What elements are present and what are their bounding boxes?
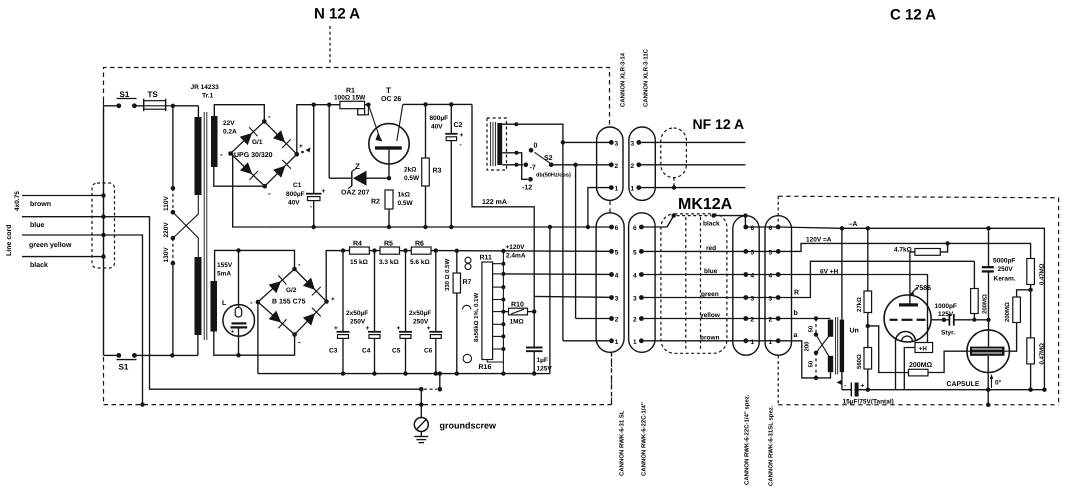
jack circle lower xyxy=(463,354,471,362)
svg-text:R16: R16 xyxy=(479,364,492,371)
svg-text:groundscrew: groundscrew xyxy=(440,421,498,431)
svg-text:5: 5 xyxy=(769,249,773,256)
wire -A rail xyxy=(778,221,1044,390)
svg-text:-: - xyxy=(268,189,271,198)
svg-text:-: - xyxy=(844,383,846,390)
svg-text:5mA: 5mA xyxy=(217,271,231,278)
svg-text:-: - xyxy=(298,260,301,269)
svg-text:50: 50 xyxy=(808,360,815,367)
svg-text:1: 1 xyxy=(769,339,773,346)
capacitor C2 800uF 40V xyxy=(430,104,464,227)
svg-text:green: green xyxy=(701,291,719,298)
svg-text:3: 3 xyxy=(751,296,755,303)
fuse TS xyxy=(144,90,173,111)
svg-text:200: 200 xyxy=(804,341,811,352)
label 2x50uF 250V second xyxy=(409,310,431,326)
node ladder tap 2 xyxy=(493,272,506,276)
transistor T OC26 xyxy=(368,86,409,178)
svg-text:R3: R3 xyxy=(433,168,442,175)
wire Un secondary bottom to ground wire xyxy=(837,372,843,390)
svg-text:250V: 250V xyxy=(413,319,429,326)
cable NF12A dashed capsule xyxy=(661,128,687,190)
svg-text:0.47MΩ: 0.47MΩ xyxy=(1039,263,1046,285)
resistor R1 100ohm 15W with tap xyxy=(334,88,368,115)
node ladder tap 5 xyxy=(493,310,506,314)
svg-text:4: 4 xyxy=(769,273,773,280)
wire NF line 3 xyxy=(639,141,746,143)
svg-text:R: R xyxy=(794,290,799,297)
bridge rectifier G/1 xyxy=(220,112,299,198)
svg-text:5.6 kΩ: 5.6 kΩ xyxy=(410,259,430,266)
wire capsule bottom to ground and chassis xyxy=(986,373,990,407)
wire 22V secondary top to bridge G/1 xyxy=(214,105,264,122)
resistor 4.7k plate load xyxy=(894,243,948,303)
capacitor 15uF tantal xyxy=(843,383,894,406)
svg-text:3: 3 xyxy=(631,140,635,147)
svg-text:TS: TS xyxy=(148,90,159,99)
svg-text:2: 2 xyxy=(751,317,755,324)
wire winding mid tap to -12 contact xyxy=(502,151,533,192)
node ladder tap 1 xyxy=(493,262,506,266)
switch S1 upper pole xyxy=(104,90,144,108)
svg-text:G/2: G/2 xyxy=(286,287,297,294)
svg-text:C3: C3 xyxy=(329,348,338,355)
svg-text:R11: R11 xyxy=(480,255,493,262)
svg-text:R5: R5 xyxy=(384,241,393,248)
node 5000pF top on rail xyxy=(986,226,990,230)
svg-text:4x0.75: 4x0.75 xyxy=(14,191,21,211)
svg-text:800µF: 800µF xyxy=(286,191,305,198)
node rail corner on ground xyxy=(1042,388,1046,392)
svg-text:250V: 250V xyxy=(350,319,366,326)
label CANNON XLR-3-11C xyxy=(643,48,650,107)
svg-text:CANNON XLR-3-11C: CANNON XLR-3-11C xyxy=(643,48,650,107)
node black terminal xyxy=(101,254,105,258)
svg-text:R1: R1 xyxy=(346,88,355,95)
svg-text:3: 3 xyxy=(769,296,773,303)
svg-text:CANNON RWK-6-31SL spez.: CANNON RWK-6-31SL spez. xyxy=(768,405,775,486)
svg-text:15µF/75V(Tantal): 15µF/75V(Tantal) xyxy=(843,399,894,406)
wire mains bus (left edge vertical) xyxy=(103,106,105,356)
switch S1 lower pole xyxy=(104,353,198,372)
svg-text:-: - xyxy=(298,338,301,347)
svg-text:-: - xyxy=(460,142,462,149)
resistor ladder R11-R16 8x56k xyxy=(473,251,503,374)
svg-text:+H: +H xyxy=(919,346,928,353)
connector CANNON RWK-6-31SL spez xyxy=(765,216,792,356)
resistor 200M grid leak xyxy=(868,326,967,376)
wire selector crossover X xyxy=(173,195,198,257)
svg-text:CANNON RWK-6-31 SL: CANNON RWK-6-31 SL xyxy=(619,410,626,476)
wire blue branch to ground link xyxy=(104,217,422,390)
transformer Tr.1 xyxy=(191,84,220,355)
svg-text:Tr.1: Tr.1 xyxy=(202,93,214,100)
node 0.47M bottom on ground xyxy=(1028,388,1032,392)
svg-text:2: 2 xyxy=(615,163,619,170)
svg-text:CAPSULE: CAPSULE xyxy=(947,381,980,388)
svg-text:+: + xyxy=(331,296,335,303)
svg-text:G/1: G/1 xyxy=(252,139,263,146)
wire G/1 plus to +rail xyxy=(297,105,340,155)
wire MK pins 5-1 pass-through xyxy=(746,227,778,341)
svg-text:C5: C5 xyxy=(392,348,401,355)
svg-text:S1: S1 xyxy=(120,90,130,99)
wire MK shield black xyxy=(641,213,747,227)
svg-text:-: - xyxy=(268,112,271,121)
svg-text:yellow: yellow xyxy=(700,312,721,319)
svg-text:blue: blue xyxy=(30,221,44,229)
svg-text:4.7kΩ: 4.7kΩ xyxy=(894,247,912,254)
svg-text:3.3 kΩ: 3.3 kΩ xyxy=(379,259,399,266)
wire 122mA feed xyxy=(472,104,534,296)
capacitor C3 xyxy=(329,251,350,374)
svg-text:250V: 250V xyxy=(998,266,1014,273)
svg-text:100Ω 15W: 100Ω 15W xyxy=(334,95,366,102)
svg-text:C1: C1 xyxy=(293,182,302,189)
svg-text:+: + xyxy=(397,325,401,332)
node green-yellow terminal xyxy=(101,233,105,237)
svg-text:green yellow: green yellow xyxy=(29,241,72,249)
wire lower 0V rail xyxy=(258,373,550,375)
wire mic ground bus xyxy=(842,389,1045,391)
svg-text:50: 50 xyxy=(808,325,815,332)
resistor R6 5.6k xyxy=(410,241,431,267)
svg-text:155V: 155V xyxy=(217,262,233,269)
title NF 12 A xyxy=(693,116,745,132)
svg-text:130V: 130V xyxy=(163,247,170,263)
wire line-cord green yellow xyxy=(22,235,104,249)
label 0 degrees with arrow xyxy=(990,374,1002,388)
wire pin b to Un primary top xyxy=(778,309,830,321)
svg-text:1: 1 xyxy=(615,339,619,346)
wire line-cord black xyxy=(22,257,104,269)
svg-text:800µF: 800µF xyxy=(430,115,449,122)
node base junction xyxy=(387,176,391,180)
zener diode Z OAZ 207 xyxy=(329,105,389,197)
connector CANNON RWK-6-22C spez xyxy=(733,216,759,356)
svg-text:200MΩ: 200MΩ xyxy=(1004,302,1011,322)
svg-text:0°: 0° xyxy=(995,380,1002,387)
svg-text:C2: C2 xyxy=(454,122,463,129)
node 27k top on rail xyxy=(866,226,870,230)
capacitor C4 xyxy=(362,251,381,374)
label +120V 2.4mA xyxy=(506,244,526,260)
wire green-yellow branch to chassis xyxy=(104,235,145,407)
wire 120V =A from pin 5 xyxy=(778,237,947,252)
wire G/1 minus to 0V rail xyxy=(231,154,265,228)
node ladder tap 7 xyxy=(493,334,506,338)
node zener feed junction xyxy=(327,103,331,107)
label 50 lower xyxy=(808,360,815,367)
connector CANNON RWK-6-22C xyxy=(629,213,656,352)
svg-text:B 155 C75: B 155 C75 xyxy=(272,299,306,306)
node selector bottom junction xyxy=(170,353,174,357)
svg-text:6V +H: 6V +H xyxy=(820,269,839,276)
svg-text:8x56kΩ 1%, 0.1W: 8x56kΩ 1%, 0.1W xyxy=(473,292,480,342)
svg-text:7586: 7586 xyxy=(916,285,932,292)
voltage selector xyxy=(171,106,176,356)
resistor R5 3.3k xyxy=(379,241,400,267)
N12A enclosure dashed box xyxy=(104,68,612,405)
svg-text:R2: R2 xyxy=(371,199,380,206)
svg-text:200MΩ: 200MΩ xyxy=(982,294,989,314)
wire 155V rail xyxy=(215,250,295,281)
svg-text:1: 1 xyxy=(631,186,635,193)
label CANNON RWK-6-22C-1/4 spez xyxy=(744,394,751,485)
svg-text:6: 6 xyxy=(633,225,637,232)
svg-text:1: 1 xyxy=(751,339,755,346)
node lamp bottom junction xyxy=(236,353,240,357)
svg-text:1µF: 1µF xyxy=(537,357,548,364)
N12A dashed edge below XLR oval xyxy=(611,353,613,405)
label 130V xyxy=(163,247,170,263)
wire winding top tap to XLR pin 3 xyxy=(502,122,611,341)
label 110V xyxy=(163,196,170,211)
wire ladder tap2 to MK pin 4 xyxy=(503,273,610,276)
node R7 top junction xyxy=(455,249,459,253)
svg-text:4: 4 xyxy=(633,273,637,280)
node ladder feed junction xyxy=(501,249,505,253)
svg-text:a: a xyxy=(794,332,798,339)
svg-text:+: + xyxy=(299,143,303,150)
svg-text:N 12 A: N 12 A xyxy=(314,6,360,23)
wire MK line blue xyxy=(641,268,745,275)
svg-text:S1: S1 xyxy=(119,363,129,372)
node blue terminal xyxy=(101,215,105,219)
svg-text:200MΩ: 200MΩ xyxy=(909,362,933,369)
label CANNON XLR-3-14 xyxy=(620,52,627,107)
svg-text:1: 1 xyxy=(633,339,637,346)
svg-text:330 Ω 0.5W: 330 Ω 0.5W xyxy=(444,259,451,291)
node B+ junction xyxy=(945,241,949,245)
wire pin a to Un primary bottom xyxy=(778,332,830,380)
node lower rail junctions xyxy=(341,371,537,375)
node C6 junction xyxy=(434,248,438,252)
node grid node junction xyxy=(942,318,946,322)
node ladder tap 4 xyxy=(493,298,506,302)
node C1 top junction xyxy=(312,103,316,107)
switch S2 xyxy=(529,143,571,179)
svg-text:0.47MΩ: 0.47MΩ xyxy=(1039,343,1046,365)
wire R pattern feed from pin 3 xyxy=(778,261,974,297)
svg-text:560Ω: 560Ω xyxy=(856,354,863,369)
connector CANNON RWK-6-31SL xyxy=(596,213,624,352)
svg-text:110V: 110V xyxy=(163,196,170,211)
svg-text:black: black xyxy=(30,261,48,269)
svg-text:Line cord: Line cord xyxy=(5,224,13,256)
svg-text:0.5W: 0.5W xyxy=(398,200,414,207)
svg-text:brown: brown xyxy=(30,200,51,208)
svg-text:2: 2 xyxy=(615,317,619,324)
wire chain node R5-R6 xyxy=(400,248,412,252)
wire MK line brown xyxy=(641,334,745,341)
svg-text:125V: 125V xyxy=(938,311,954,318)
svg-text:5000pF: 5000pF xyxy=(993,258,1015,265)
svg-text:S2: S2 xyxy=(544,155,553,162)
svg-text:JR 14233: JR 14233 xyxy=(191,84,220,91)
svg-text:5: 5 xyxy=(615,249,619,256)
wire rail interconnect vertical xyxy=(548,225,552,374)
heater terminal +H xyxy=(904,343,932,390)
svg-text:1kΩ: 1kΩ xyxy=(398,192,410,199)
svg-text:-7: -7 xyxy=(530,165,536,172)
title N 12 A xyxy=(314,6,360,23)
node 560 bottom on ground xyxy=(866,388,870,392)
svg-text:R4: R4 xyxy=(353,241,362,248)
node R3 top junction xyxy=(423,102,427,106)
svg-text:4: 4 xyxy=(751,273,755,280)
resistor R10 1M xyxy=(503,302,534,326)
jack horseshoe xyxy=(463,305,471,309)
svg-text:–A: –A xyxy=(849,221,858,228)
wire chain node R4-R5 xyxy=(369,248,380,252)
svg-text:3: 3 xyxy=(633,296,637,303)
svg-text:6: 6 xyxy=(751,225,755,232)
svg-text:brown: brown xyxy=(700,334,720,341)
svg-text:2kΩ: 2kΩ xyxy=(404,167,416,174)
svg-text:Styr.: Styr. xyxy=(941,330,955,337)
C12A enclosure dashed box xyxy=(778,196,1058,405)
svg-text:+: + xyxy=(427,325,431,332)
node capsule top junction xyxy=(986,318,990,322)
wire B+ to 0.47M top xyxy=(948,243,1031,258)
capacitor C5 xyxy=(392,251,412,374)
groundscrew xyxy=(414,389,497,442)
svg-text:+: + xyxy=(366,325,370,332)
wire S2 hub to XLR pin 2 xyxy=(551,163,611,319)
svg-text:L: L xyxy=(222,300,227,307)
svg-text:db(50Hz/cps): db(50Hz/cps) xyxy=(536,172,571,179)
resistor R7 330ohm xyxy=(444,251,472,374)
svg-text:Un: Un xyxy=(850,328,859,335)
svg-text:22V: 22V xyxy=(223,120,235,127)
svg-text:2: 2 xyxy=(631,163,635,170)
wire NF line 1 xyxy=(639,187,746,189)
svg-text:5: 5 xyxy=(751,249,755,256)
svg-text:1MΩ: 1MΩ xyxy=(510,319,524,326)
svg-text:NF 12 A: NF 12 A xyxy=(693,116,745,132)
svg-text:1: 1 xyxy=(615,186,619,193)
label 50 upper xyxy=(808,325,815,332)
capacitor 5000pF Keram xyxy=(982,228,1016,319)
svg-text:+: + xyxy=(460,132,464,139)
wire grid to coupling cap xyxy=(931,319,944,321)
svg-text:T: T xyxy=(386,86,391,95)
wire line-cord brown xyxy=(22,196,104,209)
svg-text:40V: 40V xyxy=(288,200,300,207)
wire NF line 2 xyxy=(639,164,746,166)
node R3 bottom on rail xyxy=(423,225,427,229)
svg-text:40V: 40V xyxy=(431,124,443,131)
svg-text:2x50µF: 2x50µF xyxy=(409,310,431,317)
title C 12 A xyxy=(890,7,936,24)
node lamp top junction xyxy=(236,248,240,252)
svg-text:MK12A: MK12A xyxy=(678,196,733,213)
resistor 0.47M upper xyxy=(1027,259,1046,290)
capacitor 1000pF Styroflex xyxy=(935,303,989,337)
node C1 bottom on rail xyxy=(312,225,316,229)
node divider mid junction xyxy=(1028,288,1032,292)
svg-text:UPG 30/320: UPG 30/320 xyxy=(234,151,273,159)
node R10 output junction xyxy=(532,309,536,313)
capacitor 1uF 125V xyxy=(526,348,552,374)
svg-text:+: + xyxy=(334,325,338,332)
mains connector dashed box xyxy=(92,183,115,268)
svg-text:0: 0 xyxy=(534,143,538,150)
node C2 top junction xyxy=(449,102,453,106)
svg-text:-: - xyxy=(310,204,312,211)
svg-text:+: + xyxy=(322,188,326,195)
cable MK12A dashed block xyxy=(661,214,727,353)
label 200 xyxy=(804,341,811,352)
svg-text:3: 3 xyxy=(615,296,619,303)
wire MK line green xyxy=(641,291,745,298)
node ladder tap 8 xyxy=(493,347,506,351)
wire 0V rail upper xyxy=(265,226,610,228)
wire heater from pin 4 xyxy=(778,269,927,343)
wire Un secondary top to -A rail xyxy=(841,228,843,319)
lamp L xyxy=(222,250,255,355)
dashed leader from title to enclosure xyxy=(329,26,331,65)
svg-text:6: 6 xyxy=(769,225,773,232)
connector CANNON XLR-3-11C xyxy=(629,127,655,200)
resistor R2 1k 0.5W xyxy=(371,190,414,227)
resistor 0.47M lower xyxy=(1027,290,1046,390)
svg-text:CANNON RWK-6-22C-1/4″: CANNON RWK-6-22C-1/4″ xyxy=(641,402,648,476)
node emitter junction xyxy=(366,103,370,107)
svg-text:-: - xyxy=(220,150,223,159)
svg-text:b: b xyxy=(794,309,798,317)
label 4x0.75 xyxy=(14,191,21,211)
svg-text:2x50µF: 2x50µF xyxy=(346,310,368,317)
wire +120V line to pin 5 xyxy=(431,250,610,253)
wire G/2 minus to lower rail xyxy=(257,302,259,374)
label 22V 0.2A xyxy=(223,120,237,136)
svg-text:3: 3 xyxy=(615,140,619,147)
resistor 200M polarization (from R line) xyxy=(971,261,989,322)
label 155V 5mA xyxy=(217,262,233,278)
svg-text:220V: 220V xyxy=(163,222,170,238)
svg-text:+120V: +120V xyxy=(506,244,526,251)
svg-text:-: - xyxy=(250,298,253,307)
svg-text:-12: -12 xyxy=(522,185,532,192)
wire R10 node to MK pin 3 xyxy=(534,296,610,347)
bridge rectifier G/2 xyxy=(250,260,335,347)
node C3 junction xyxy=(341,248,345,252)
svg-text:red: red xyxy=(706,245,716,252)
node selector feed junction xyxy=(171,104,199,108)
svg-text:+: + xyxy=(861,383,865,390)
wire collector output rail xyxy=(403,103,472,105)
svg-text:122 mA: 122 mA xyxy=(482,199,507,206)
node ladder tap 3 xyxy=(493,285,506,289)
wire capsule right lead to 200M xyxy=(1010,323,1017,352)
svg-text:C4: C4 xyxy=(362,348,371,355)
resistor R3 2k 0.5W xyxy=(404,104,442,227)
node R2 bottom on rail xyxy=(387,225,391,229)
capacitor C6 xyxy=(424,251,442,374)
svg-text:Keram.: Keram. xyxy=(994,276,1016,283)
svg-text:R6: R6 xyxy=(415,241,424,248)
capacitor C1 xyxy=(286,105,326,227)
label 2x50uF 250V first xyxy=(346,310,368,326)
node C2 bottom on rail xyxy=(449,225,453,229)
svg-text:R10: R10 xyxy=(511,302,524,309)
svg-text:0.2A: 0.2A xyxy=(223,129,237,136)
resistor R4 15k xyxy=(350,241,370,267)
svg-text:120V =A: 120V =A xyxy=(806,237,832,244)
label 220V xyxy=(163,222,170,238)
